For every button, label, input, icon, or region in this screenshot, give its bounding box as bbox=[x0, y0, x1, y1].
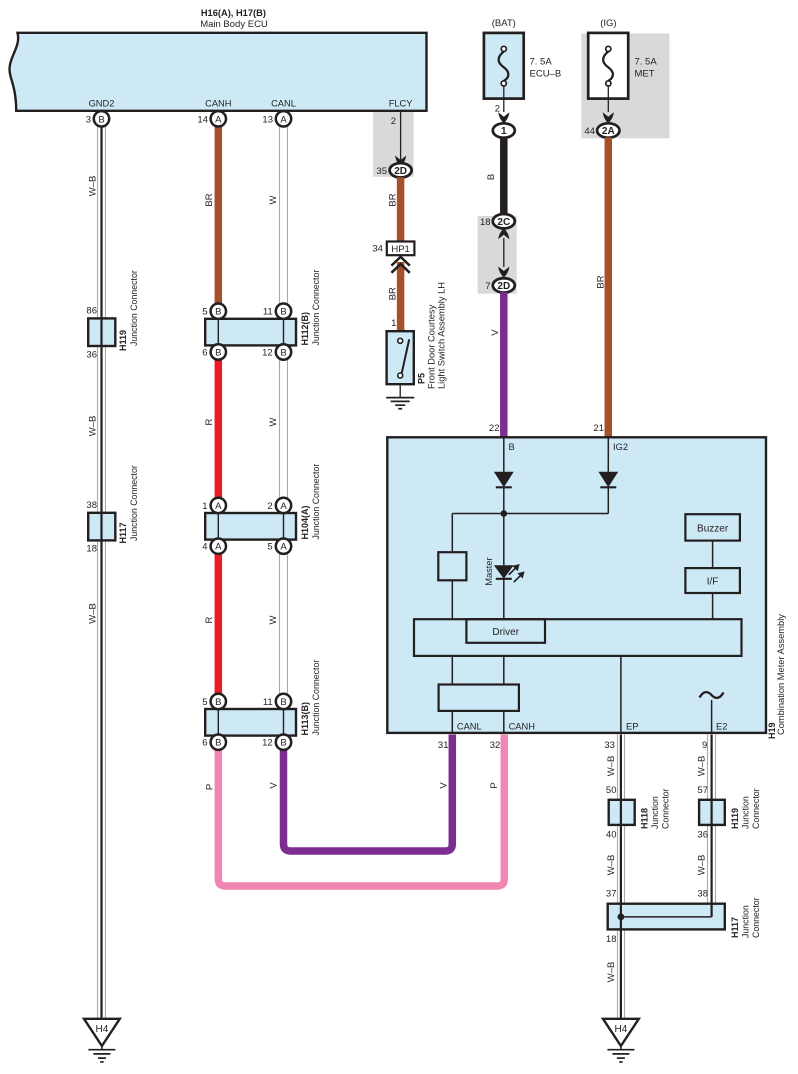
svg-text:Buzzer: Buzzer bbox=[697, 524, 729, 535]
svg-text:40: 40 bbox=[606, 829, 617, 840]
svg-text:V: V bbox=[439, 782, 450, 789]
svg-text:7: 7 bbox=[485, 281, 490, 292]
svg-text:W–B: W–B bbox=[606, 756, 617, 777]
svg-text:6: 6 bbox=[202, 738, 207, 749]
svg-text:Junction Connector: Junction Connector bbox=[129, 465, 139, 541]
svg-text:B: B bbox=[280, 347, 286, 358]
svg-text:2C: 2C bbox=[497, 217, 510, 228]
svg-text:B: B bbox=[280, 697, 286, 708]
svg-text:2: 2 bbox=[391, 116, 396, 127]
svg-text:H104(A): H104(A) bbox=[300, 505, 310, 539]
svg-text:22: 22 bbox=[489, 423, 500, 434]
svg-text:I/F: I/F bbox=[707, 577, 719, 588]
svg-text:35: 35 bbox=[376, 166, 387, 177]
svg-text:Junction Connector: Junction Connector bbox=[311, 464, 321, 540]
svg-text:86: 86 bbox=[86, 306, 97, 317]
svg-text:BR: BR bbox=[204, 193, 215, 206]
svg-text:Connector: Connector bbox=[661, 788, 671, 829]
svg-text:E2: E2 bbox=[716, 722, 727, 732]
svg-text:A: A bbox=[215, 542, 222, 553]
svg-text:34: 34 bbox=[372, 244, 383, 255]
svg-text:Main Body ECU: Main Body ECU bbox=[200, 19, 268, 30]
svg-text:4: 4 bbox=[202, 542, 207, 553]
svg-text:A: A bbox=[280, 501, 287, 512]
svg-text:FLCY: FLCY bbox=[389, 99, 413, 109]
svg-text:6: 6 bbox=[202, 348, 207, 359]
svg-text:36: 36 bbox=[86, 350, 97, 361]
svg-text:B: B bbox=[215, 347, 221, 358]
svg-text:44: 44 bbox=[584, 126, 595, 137]
svg-text:H119: H119 bbox=[118, 330, 128, 351]
svg-text:1: 1 bbox=[391, 318, 396, 329]
svg-text:5: 5 bbox=[267, 542, 272, 553]
svg-text:B: B bbox=[486, 174, 497, 180]
svg-text:EP: EP bbox=[626, 722, 638, 732]
svg-text:CANH: CANH bbox=[509, 722, 535, 732]
svg-text:12: 12 bbox=[262, 738, 273, 749]
svg-text:W–B: W–B bbox=[697, 756, 708, 777]
svg-text:2D: 2D bbox=[497, 281, 510, 292]
svg-text:Junction Connector: Junction Connector bbox=[129, 270, 139, 346]
svg-text:A: A bbox=[280, 114, 287, 125]
svg-text:W: W bbox=[268, 615, 279, 624]
svg-text:B: B bbox=[280, 738, 286, 749]
svg-text:B: B bbox=[215, 697, 221, 708]
svg-text:W–B: W–B bbox=[88, 603, 99, 624]
svg-text:P5: P5 bbox=[417, 373, 427, 384]
svg-text:W–B: W–B bbox=[606, 962, 617, 983]
svg-text:7. 5A: 7. 5A bbox=[635, 57, 658, 68]
svg-text:18: 18 bbox=[86, 544, 97, 555]
svg-text:Connector: Connector bbox=[751, 788, 761, 829]
svg-text:H4: H4 bbox=[615, 1024, 628, 1035]
svg-text:W–B: W–B bbox=[606, 855, 617, 876]
svg-text:R: R bbox=[204, 418, 215, 425]
svg-text:MET: MET bbox=[635, 69, 655, 80]
svg-text:36: 36 bbox=[697, 829, 708, 840]
svg-text:7. 5A: 7. 5A bbox=[530, 57, 553, 68]
svg-text:12: 12 bbox=[262, 348, 273, 359]
svg-text:Connector: Connector bbox=[751, 897, 761, 938]
svg-text:GND2: GND2 bbox=[89, 99, 115, 109]
svg-text:B: B bbox=[280, 307, 286, 318]
svg-text:A: A bbox=[280, 542, 287, 553]
svg-text:B: B bbox=[509, 442, 515, 452]
svg-text:Junction: Junction bbox=[650, 796, 660, 829]
svg-text:9: 9 bbox=[702, 740, 707, 751]
svg-text:2: 2 bbox=[267, 501, 272, 512]
svg-text:W–B: W–B bbox=[88, 416, 99, 437]
svg-text:H16(A), H17(B): H16(A), H17(B) bbox=[201, 8, 266, 18]
svg-text:18: 18 bbox=[480, 217, 491, 228]
svg-text:Junction Connector: Junction Connector bbox=[311, 270, 321, 346]
svg-text:21: 21 bbox=[593, 423, 604, 434]
svg-text:Junction: Junction bbox=[740, 905, 750, 938]
svg-text:Combination Meter Assembly: Combination Meter Assembly bbox=[776, 614, 786, 735]
svg-text:2: 2 bbox=[495, 104, 500, 115]
svg-text:H117: H117 bbox=[118, 522, 128, 543]
svg-text:(BAT): (BAT) bbox=[492, 18, 516, 29]
svg-text:A: A bbox=[215, 114, 222, 125]
svg-text:P: P bbox=[205, 784, 216, 790]
svg-text:BR: BR bbox=[595, 275, 606, 288]
svg-text:33: 33 bbox=[604, 740, 615, 751]
svg-text:2A: 2A bbox=[602, 126, 615, 137]
svg-text:B: B bbox=[98, 114, 104, 125]
svg-text:Driver: Driver bbox=[492, 627, 519, 638]
svg-text:CANL: CANL bbox=[457, 722, 482, 732]
svg-text:Master: Master bbox=[484, 557, 494, 585]
svg-text:38: 38 bbox=[697, 889, 708, 900]
svg-text:H112(B): H112(B) bbox=[300, 312, 310, 346]
svg-text:B: B bbox=[215, 738, 221, 749]
svg-text:1: 1 bbox=[501, 126, 507, 137]
svg-text:V: V bbox=[490, 329, 501, 336]
svg-text:Light Switch Assembly LH: Light Switch Assembly LH bbox=[437, 282, 447, 389]
svg-text:13: 13 bbox=[262, 114, 273, 125]
svg-text:W–B: W–B bbox=[697, 855, 708, 876]
svg-text:IG2: IG2 bbox=[613, 442, 628, 452]
svg-text:A: A bbox=[215, 501, 222, 512]
svg-text:W: W bbox=[268, 417, 279, 426]
svg-text:P: P bbox=[489, 782, 500, 788]
svg-text:H119: H119 bbox=[730, 808, 740, 829]
svg-text:Front Door Courtesy: Front Door Courtesy bbox=[427, 304, 437, 389]
svg-text:32: 32 bbox=[490, 740, 501, 751]
svg-text:14: 14 bbox=[197, 114, 208, 125]
svg-text:B: B bbox=[215, 307, 221, 318]
svg-text:3: 3 bbox=[86, 114, 91, 125]
svg-text:CANH: CANH bbox=[205, 99, 231, 109]
svg-text:Junction: Junction bbox=[740, 796, 750, 829]
svg-text:BR: BR bbox=[387, 287, 398, 300]
svg-text:BR: BR bbox=[387, 193, 398, 206]
svg-text:(IG): (IG) bbox=[600, 18, 616, 29]
svg-text:50: 50 bbox=[606, 785, 617, 796]
svg-text:5: 5 bbox=[202, 307, 207, 318]
svg-text:V: V bbox=[268, 782, 279, 789]
svg-text:CANL: CANL bbox=[271, 99, 296, 109]
svg-text:Junction Connector: Junction Connector bbox=[311, 660, 321, 736]
svg-text:1: 1 bbox=[202, 501, 207, 512]
svg-text:31: 31 bbox=[438, 740, 449, 751]
svg-text:ECU–B: ECU–B bbox=[530, 69, 562, 80]
svg-text:H113(B): H113(B) bbox=[300, 702, 310, 736]
svg-text:H118: H118 bbox=[640, 808, 650, 829]
svg-text:W: W bbox=[268, 195, 279, 204]
svg-text:11: 11 bbox=[263, 697, 273, 708]
svg-text:W–B: W–B bbox=[88, 176, 99, 197]
svg-text:HP1: HP1 bbox=[391, 244, 409, 255]
svg-text:37: 37 bbox=[606, 889, 617, 900]
svg-text:2D: 2D bbox=[394, 166, 407, 177]
svg-text:11: 11 bbox=[263, 307, 273, 318]
svg-text:5: 5 bbox=[202, 697, 207, 708]
svg-text:H117: H117 bbox=[730, 917, 740, 938]
svg-text:H4: H4 bbox=[96, 1024, 109, 1035]
svg-text:18: 18 bbox=[606, 934, 617, 945]
svg-text:57: 57 bbox=[697, 785, 708, 796]
svg-text:R: R bbox=[204, 616, 215, 623]
svg-text:38: 38 bbox=[86, 500, 97, 511]
